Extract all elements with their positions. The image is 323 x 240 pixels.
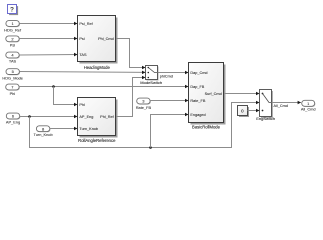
svg-text:Rate_FB: Rate_FB xyxy=(190,99,205,103)
svg-text:AP_Eng: AP_Eng xyxy=(79,115,93,119)
svg-text:Psi: Psi xyxy=(10,42,16,47)
wire AP_Eng branch bottom bus to EngSwitch control xyxy=(30,103,260,148)
subsystem RollAngleReference xyxy=(78,98,118,144)
wire HDG_Mode to ModeSwitch control xyxy=(19,71,145,74)
wire Psi to HeadingMode Psi xyxy=(19,38,77,40)
svg-text:Phi_Cmd: Phi_Cmd xyxy=(98,37,114,41)
input port 8 Turn_Knob xyxy=(34,126,53,137)
svg-text:EngSwitch: EngSwitch xyxy=(256,116,275,121)
svg-text:Ail_Cmd: Ail_Cmd xyxy=(301,106,316,111)
help block ? xyxy=(8,5,19,16)
svg-text:HeadingMode: HeadingMode xyxy=(84,65,111,70)
switch ModeSwitch xyxy=(140,66,162,86)
wire TAS to HeadingMode TAS xyxy=(19,54,77,57)
svg-text:Dap_FB: Dap_FB xyxy=(190,85,204,89)
svg-text:Engaged: Engaged xyxy=(190,113,205,117)
svg-text:AP_Eng: AP_Eng xyxy=(6,120,20,125)
input port 4 TAS xyxy=(6,52,20,63)
wire ModeSwitch output phiCmd to BasicRollMode Dap_Cmd xyxy=(158,73,189,79)
svg-text:Phi: Phi xyxy=(79,103,85,107)
switch EngSwitch xyxy=(256,90,275,121)
svg-text:Phi_Ref: Phi_Ref xyxy=(100,115,114,119)
svg-text:Rate_FB: Rate_FB xyxy=(136,105,152,110)
junction on bottom bus xyxy=(149,146,152,149)
svg-text:?: ? xyxy=(10,7,14,14)
svg-text:Turn_Knob: Turn_Knob xyxy=(34,132,53,137)
svg-text:TAS: TAS xyxy=(9,58,17,63)
junction on Phi wire xyxy=(52,85,55,88)
wire EngSwitch output Ail_Cmd to output port xyxy=(272,103,301,108)
wire RollAngleReference Phi_Ref to ModeSwitch input 3 xyxy=(116,78,145,117)
svg-text:TAS: TAS xyxy=(79,53,87,57)
wire Rate_FB to BasicRollMode Rate_FB xyxy=(150,100,188,102)
svg-text:Turn_Knob: Turn_Knob xyxy=(79,127,98,131)
subsystem HeadingMode xyxy=(78,16,118,70)
wire Phi to BasicRollMode Dap_FB xyxy=(19,86,188,88)
wire AP_Eng to RollAngleReference AP_Eng xyxy=(20,116,77,118)
svg-text:Phi: Phi xyxy=(10,91,16,96)
input port 3 Rate_FB xyxy=(136,98,152,110)
svg-text:BasicRollMode: BasicRollMode xyxy=(192,124,221,129)
svg-text:Ail_Cmd: Ail_Cmd xyxy=(274,104,288,108)
svg-text:Psi_Ref: Psi_Ref xyxy=(79,22,93,26)
svg-text:HDG_Mode: HDG_Mode xyxy=(2,75,23,80)
input port 6 AP_Eng xyxy=(6,113,21,125)
input port 1 HDG_Ref xyxy=(4,21,22,33)
input port 2 Psi xyxy=(6,36,20,47)
svg-text:Psi: Psi xyxy=(79,37,84,41)
svg-text:HDG_Ref: HDG_Ref xyxy=(4,27,22,32)
wire BasicRollMode Surf_Cmd to EngSwitch input 1 xyxy=(224,93,259,95)
wire Phi branch to RollAngleReference Phi xyxy=(54,87,78,105)
svg-text:Dap_Cmd: Dap_Cmd xyxy=(190,71,207,75)
input port 7 Phi xyxy=(6,84,20,96)
wire Turn_Knob to RollAngleReference Turn_Knob xyxy=(50,128,77,130)
subsystem BasicRollMode xyxy=(189,63,226,130)
svg-text:RollAngleReference: RollAngleReference xyxy=(78,138,116,143)
junction on AP_Eng wire xyxy=(28,115,31,118)
output port 1 Ail_Cmd xyxy=(301,100,316,111)
wire HeadingMode Phi_Cmd to ModeSwitch input 1 xyxy=(116,39,145,68)
svg-text:Surf_Cmd: Surf_Cmd xyxy=(205,92,222,96)
wire constant 0 to EngSwitch input 3 xyxy=(248,110,260,112)
input port 5 HDG_Mode xyxy=(2,69,23,81)
svg-text:phiCmd: phiCmd xyxy=(160,74,173,78)
wire HDG_Ref to HeadingMode Psi_Ref xyxy=(19,23,77,25)
svg-text:ModeSwitch: ModeSwitch xyxy=(140,80,162,85)
wire bus branch up to BasicRollMode Engaged xyxy=(151,115,189,148)
constant 0 xyxy=(238,106,250,118)
